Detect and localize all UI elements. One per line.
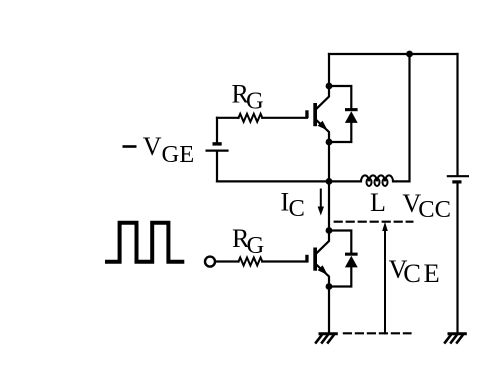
node top rail junction (406, 51, 413, 58)
resistor RG2 (239, 258, 263, 266)
node Q1 emitter (326, 139, 333, 146)
ground left (316, 334, 336, 343)
diode D1 (antiparallel with Q1) (329, 86, 358, 142)
current arrow IC (318, 190, 324, 216)
battery -VGE (207, 118, 228, 182)
resistor RG1 (239, 114, 263, 122)
svg-text:CC: CC (418, 196, 451, 223)
label -VGE (123, 132, 195, 168)
svg-text:G: G (247, 232, 265, 259)
wire top rail (329, 53, 458, 55)
label RG1 (232, 80, 264, 115)
terminal input (205, 257, 215, 267)
svg-text:V: V (143, 132, 162, 161)
wire gate RG2 right (262, 260, 307, 262)
pulse source waveform (105, 223, 184, 262)
svg-text:CE: CE (403, 258, 442, 288)
wire Q1 collector feed (328, 54, 330, 86)
inductor L (361, 175, 393, 186)
node Q1 collector (326, 83, 333, 90)
wire inductor to rail (393, 54, 410, 181)
node Q2 collector (326, 227, 333, 234)
wire battery return (217, 180, 329, 182)
svg-text:L: L (370, 188, 386, 217)
wire midpoint to inductor (329, 180, 361, 182)
measurement arrow VCE (382, 222, 388, 333)
wire Q2 emitter to ground (328, 287, 330, 333)
label VCC (402, 189, 451, 223)
diode D2 (antiparallel with Q2) (329, 231, 358, 287)
label RG2 (232, 224, 264, 259)
battery VCC (448, 54, 468, 333)
dashed reference bottom (344, 332, 411, 334)
wire midpoint vertical (328, 142, 330, 231)
node midpoint (326, 178, 333, 185)
node Q2 emitter (326, 283, 333, 290)
transistor Q1 (upper IGBT) (305, 87, 329, 141)
wire gate RG2 left (215, 260, 238, 262)
svg-text:C: C (289, 195, 305, 222)
svg-text:GE: GE (162, 141, 195, 168)
label VCE (389, 255, 443, 288)
dashed reference top (335, 221, 413, 223)
wire gate RG1 right (262, 117, 307, 119)
label IC (281, 187, 305, 222)
svg-text:G: G (246, 88, 264, 115)
ground right (445, 334, 465, 343)
transistor Q2 (lower IGBT) (305, 232, 329, 286)
wire gate RG1 left (217, 117, 239, 119)
